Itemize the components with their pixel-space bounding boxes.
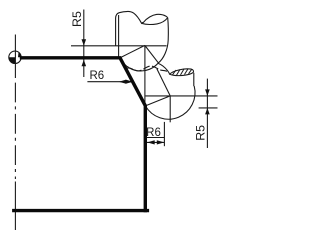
svg-text:R6: R6 [146,127,161,139]
svg-text:R6: R6 [89,70,104,82]
svg-text:R5: R5 [70,11,84,27]
svg-text:R5: R5 [194,125,208,141]
